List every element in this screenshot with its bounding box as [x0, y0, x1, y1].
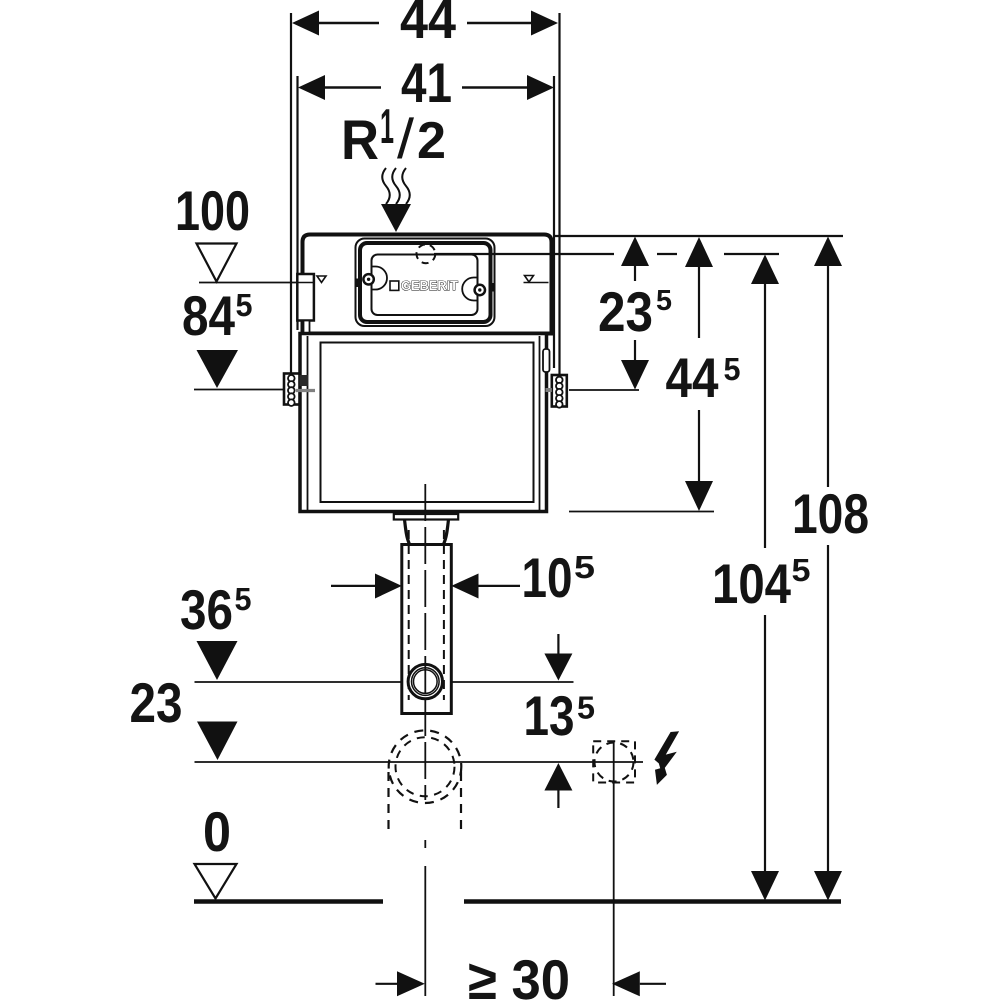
- level marker 84.5 (filled triangle): [197, 350, 239, 388]
- svg-text:13: 13: [524, 684, 575, 747]
- dimension 44: [292, 0, 558, 50]
- dimension 41: [298, 51, 554, 114]
- panel clip tab left: [356, 279, 361, 288]
- level line 100: [199, 282, 297, 284]
- cistern top section: [303, 235, 552, 334]
- access panel inner plate: [372, 255, 478, 316]
- dimension 44.5: [666, 237, 741, 511]
- panel screw left: [363, 274, 373, 284]
- reference line y762: [195, 761, 644, 763]
- label 23: [130, 671, 183, 734]
- svg-text:5: 5: [235, 581, 252, 617]
- svg-text:5: 5: [577, 690, 595, 726]
- svg-text:84: 84: [182, 284, 235, 347]
- lightning bolt symbol: [654, 731, 679, 785]
- extension line 41 left: [296, 76, 298, 330]
- dimension 23.5: [598, 237, 672, 390]
- svg-text:5: 5: [574, 549, 595, 585]
- svg-text:/: /: [397, 107, 414, 170]
- svg-text:5: 5: [724, 351, 741, 387]
- svg-text:44: 44: [666, 346, 719, 409]
- reference line y682: [195, 681, 574, 683]
- svg-text:R: R: [341, 108, 379, 171]
- label 100: [175, 179, 250, 242]
- dimension 10.5: [331, 546, 595, 609]
- svg-text:≥ 30: ≥ 30: [468, 948, 570, 1000]
- panel right D-cutout: [462, 278, 477, 301]
- svg-text:100: 100: [175, 179, 250, 242]
- extension line 44 right: [558, 13, 560, 375]
- svg-text:41: 41: [401, 51, 452, 114]
- electrical supply centerline: [613, 741, 615, 996]
- dimension >=30: [376, 948, 667, 1000]
- level marker 36.5 (filled triangle): [197, 641, 238, 680]
- extension line 44 left: [290, 13, 292, 374]
- svg-text:0: 0: [203, 800, 231, 863]
- reference line y511 right: [569, 511, 714, 513]
- outlet connection circle: [408, 664, 442, 698]
- svg-text:GEBERIT: GEBERIT: [401, 278, 458, 293]
- electrical supply dashed box: [593, 741, 635, 782]
- fill valve box: [297, 274, 314, 334]
- GEBERIT logo: [390, 278, 458, 293]
- svg-text:36: 36: [180, 578, 233, 641]
- svg-text:2: 2: [417, 112, 446, 170]
- floor line: [194, 899, 841, 904]
- dimension 13.5: [524, 634, 596, 808]
- label R 1/2: [341, 100, 446, 171]
- reference line actuator level y254: [434, 253, 779, 255]
- reference line top of cistern y236: [553, 235, 843, 237]
- cistern main body: [300, 334, 547, 512]
- label 36.5: [180, 578, 252, 641]
- access panel outer frame: [356, 239, 495, 327]
- water level mark right inside cistern: [524, 276, 549, 283]
- label 84.5: [182, 284, 253, 347]
- water level mark left inside cistern: [317, 276, 326, 283]
- level marker 100 (open triangle): [197, 244, 237, 282]
- reference line y390 right: [569, 389, 639, 391]
- panel screw right: [475, 285, 485, 295]
- svg-text:44: 44: [400, 0, 456, 50]
- dimension 108: [792, 237, 869, 901]
- svg-text:5: 5: [792, 552, 811, 588]
- level marker 0 (open triangle): [195, 864, 237, 899]
- svg-text:5: 5: [656, 285, 672, 317]
- flush valve clamp right: [543, 349, 550, 372]
- flush pipe centerline: [424, 484, 426, 996]
- svg-text:10: 10: [522, 546, 573, 609]
- svg-text:104: 104: [712, 552, 791, 615]
- dashed actuator rod circle on panel: [417, 244, 436, 263]
- svg-text:23: 23: [598, 280, 653, 343]
- svg-text:108: 108: [792, 482, 869, 545]
- extension line 41 right: [553, 76, 555, 368]
- cistern inner liner rectangle: [321, 343, 534, 503]
- svg-text:5: 5: [236, 287, 253, 323]
- svg-text:23: 23: [130, 671, 183, 734]
- water supply squiggle arrow: [381, 168, 411, 232]
- svg-text:1: 1: [380, 100, 394, 154]
- flush pipe: [402, 530, 452, 714]
- level line 84.5: [194, 389, 284, 391]
- wall anchor left: [284, 374, 315, 407]
- flush bend outlet flange: [394, 514, 458, 544]
- dimension 104.5: [712, 255, 811, 901]
- dashed drain pipe circle: [389, 730, 462, 836]
- wall anchor right: [546, 375, 567, 408]
- label 0: [203, 800, 231, 863]
- panel clip tab right: [489, 283, 494, 292]
- panel left D-cutout: [372, 267, 387, 290]
- level marker 23 (filled triangle): [197, 722, 238, 761]
